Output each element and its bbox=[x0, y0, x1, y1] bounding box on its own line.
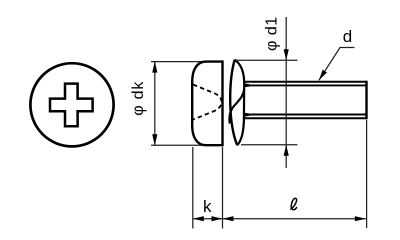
svg-text:d: d bbox=[343, 27, 352, 46]
svg-text:φ dk: φ dk bbox=[130, 81, 147, 116]
svg-text:k: k bbox=[203, 197, 212, 216]
svg-text:φ d1: φ d1 bbox=[264, 16, 281, 51]
